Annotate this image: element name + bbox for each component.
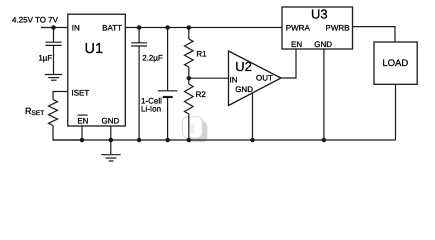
node U1 GND/rail junction xyxy=(109,138,114,143)
node R1/R2 divider junction xyxy=(187,76,192,81)
wire BATT top rail U1 to U3 PWRA xyxy=(125,27,282,29)
IC U3 body xyxy=(282,7,353,49)
svg-text:R1: R1 xyxy=(196,49,207,58)
watermark cursor box xyxy=(183,117,208,143)
ground (input capacitor) xyxy=(45,75,62,81)
svg-text:BATT: BATT xyxy=(102,24,122,33)
pin label EN with overline (U1) xyxy=(77,115,88,125)
node U2 GND/rail junction xyxy=(250,138,255,143)
wire input stub to U1 IN xyxy=(41,27,68,29)
capacitor C1 1uF xyxy=(45,28,61,75)
wire LOAD bottom to rail xyxy=(395,84,397,140)
resistor R1 xyxy=(185,28,194,79)
svg-text:U3: U3 xyxy=(311,6,328,21)
node input/C1 junction xyxy=(51,25,56,30)
node C2 bottom junction xyxy=(137,138,142,143)
load box xyxy=(374,42,417,84)
capacitor C2 2.2uF xyxy=(131,28,147,141)
node R1 top junction xyxy=(187,25,192,30)
node C2 top junction xyxy=(137,25,142,30)
wire EN pin down to rail xyxy=(81,126,83,140)
node battery top junction xyxy=(165,25,170,30)
op-amp U2 body (buffer triangle) xyxy=(229,51,282,106)
svg-text:U2: U2 xyxy=(235,59,252,74)
resistor R2 xyxy=(185,78,194,140)
wire GND pin of U1 down to rail xyxy=(110,126,112,154)
svg-text:2.2µF: 2.2µF xyxy=(142,53,163,62)
wire U2 GND down to rail xyxy=(252,93,254,140)
node R2 bottom junction xyxy=(187,138,192,143)
svg-text:Li-Ion: Li-Ion xyxy=(141,104,161,113)
svg-text:GND: GND xyxy=(314,40,332,49)
wire U3 PWRB to LOAD top xyxy=(353,27,396,42)
battery BT1 1-Cell Li-Ion xyxy=(158,28,178,141)
node battery bottom junction xyxy=(165,138,170,143)
wire U3 GND down to rail xyxy=(323,49,325,140)
svg-text:1µF: 1µF xyxy=(38,53,52,62)
svg-text:GND: GND xyxy=(102,116,120,125)
IC U1 body xyxy=(68,14,126,126)
resistor RSET xyxy=(49,100,58,126)
wire ground rail xyxy=(53,139,396,141)
ground (system, below U1 GND) xyxy=(101,155,120,161)
svg-text:ISET: ISET xyxy=(72,88,90,97)
wire RSET bottom to ground rail xyxy=(53,126,82,141)
wire U2 OUT to U3 EN xyxy=(281,49,296,78)
svg-text:GND: GND xyxy=(235,85,253,94)
label 1-Cell Li-Ion xyxy=(141,96,162,113)
svg-text:IN: IN xyxy=(230,76,238,85)
wire divider to U2 IN xyxy=(189,77,229,79)
node U3 GND/rail junction xyxy=(322,138,327,143)
svg-text:U1: U1 xyxy=(85,41,104,57)
svg-text:IN: IN xyxy=(72,24,80,33)
svg-text:EN: EN xyxy=(291,40,302,49)
svg-text:4.25V TO 7V: 4.25V TO 7V xyxy=(12,15,59,24)
node EN/rail junction xyxy=(80,138,85,143)
svg-text:OUT: OUT xyxy=(256,74,273,83)
svg-text:PWRB: PWRB xyxy=(326,23,350,32)
wire ISET to RSET xyxy=(53,92,68,100)
svg-text:LOAD: LOAD xyxy=(382,58,408,69)
svg-text:R2: R2 xyxy=(196,90,207,99)
svg-text:EN: EN xyxy=(77,116,88,125)
svg-text:PWRA: PWRA xyxy=(286,23,311,32)
